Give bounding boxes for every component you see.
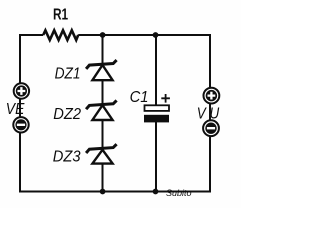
svg-text:VE: VE	[6, 101, 26, 118]
capacitor C1 plus sign	[161, 94, 170, 103]
wire capacitor branch lower	[155, 122, 157, 192]
wire capacitor branch upper	[155, 35, 157, 106]
node junction dot bottom-right	[153, 189, 159, 195]
terminal VU plus	[204, 88, 220, 104]
zener diode DZ3	[86, 144, 117, 163]
resistor R1	[43, 30, 78, 40]
svg-text:DZ1: DZ1	[55, 66, 81, 83]
svg-text:DZ2: DZ2	[53, 105, 81, 123]
wire left vertical	[19, 34, 21, 192]
svg-text:DZ3: DZ3	[53, 148, 81, 166]
svg-text:V U: V U	[197, 105, 220, 122]
wire right vertical	[209, 34, 211, 192]
wire zener chain vertical	[102, 35, 104, 192]
terminal VU minus	[203, 120, 219, 136]
wire bottom rail	[19, 191, 211, 193]
zener diode DZ2	[86, 100, 117, 120]
svg-text:R1: R1	[53, 5, 68, 23]
terminal VE minus	[13, 117, 28, 132]
capacitor C1 top plate	[145, 105, 170, 111]
svg-text:C1: C1	[130, 89, 149, 106]
node junction dot top-left	[100, 32, 106, 38]
wire top rail right segment	[78, 34, 211, 36]
node junction dot bottom-left	[100, 189, 106, 195]
node junction dot top-right	[153, 32, 159, 38]
terminal VE plus	[14, 83, 29, 98]
wire top rail left segment	[19, 34, 43, 36]
capacitor C1 bottom plate	[144, 115, 169, 123]
svg-text:Subito: Subito	[166, 188, 192, 198]
zener diode DZ1	[86, 60, 117, 80]
